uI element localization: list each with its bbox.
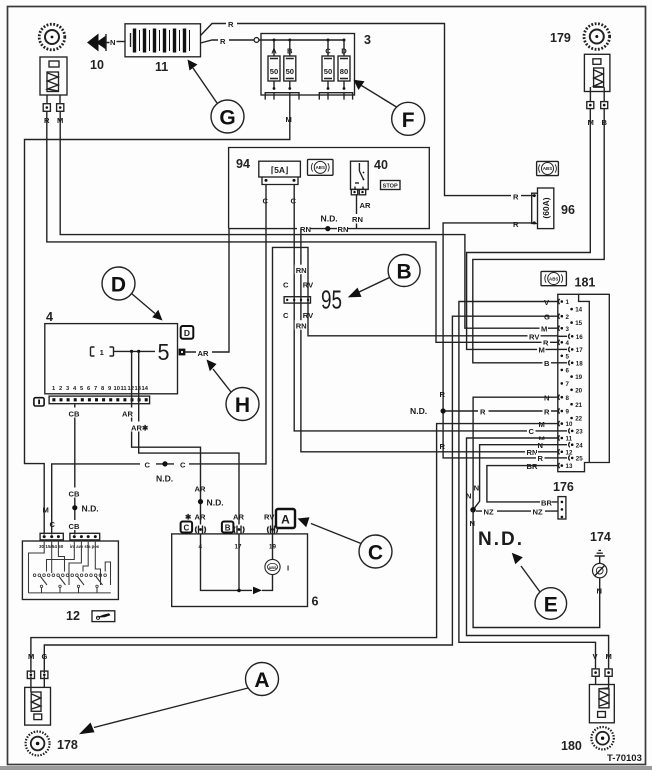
terminal M (178): [27, 671, 34, 678]
circle C annotation: [359, 535, 392, 568]
svg-text:NZ: NZ: [533, 508, 543, 517]
pin 9 of 181: [558, 408, 569, 415]
arrow E: [512, 553, 540, 592]
circle B annotation: [388, 255, 420, 287]
arrow B: [348, 278, 390, 298]
label M (181 row): [537, 433, 546, 443]
pin glyph A (6 pin 19): [268, 526, 278, 534]
fuse C 50: [322, 39, 334, 90]
contact row circles (12): [33, 574, 106, 588]
svg-text:14: 14: [142, 386, 149, 392]
svg-text:RN: RN: [296, 322, 307, 331]
ABS logo box (near 181): [541, 271, 566, 285]
svg-text:N.D.: N.D.: [478, 529, 524, 550]
label AR* (pin13 wire): [130, 422, 149, 433]
svg-text:N.D.: N.D.: [410, 406, 427, 416]
terminal M (top-left sensor): [57, 104, 64, 112]
wire N to battery 11: [117, 41, 126, 43]
svg-text:RV: RV: [529, 333, 540, 342]
svg-text:AR: AR: [233, 513, 244, 522]
pin 25 of 181: [558, 455, 583, 462]
pin 8 of 181: [558, 395, 569, 402]
svg-text:N: N: [470, 519, 475, 528]
svg-text:2: 2: [59, 386, 62, 392]
wire C from 94 left pin to C junction and switch 12: [52, 185, 266, 535]
pin 17 of 181: [558, 347, 583, 354]
wire NZ junction to 176: [476, 510, 558, 512]
svg-text:AR: AR: [360, 201, 371, 210]
connector 176: [558, 497, 566, 519]
pin 15 of 181: [570, 320, 582, 327]
svg-text:17: 17: [576, 347, 583, 354]
svg-text:7: 7: [566, 381, 570, 388]
pin 2 of 181: [558, 314, 569, 321]
abs actuator box 6: [172, 534, 308, 607]
svg-text:M: M: [539, 420, 545, 429]
svg-text:22: 22: [575, 416, 582, 423]
label R (181 row): [536, 453, 545, 463]
svg-text:5: 5: [566, 353, 570, 360]
arrow H: [207, 360, 232, 393]
wire RN through connector 95 to pin12 of 181: [301, 297, 558, 452]
ignition switch 12: [22, 541, 118, 600]
sensor connector (top-left): [40, 57, 67, 104]
label AR (pin12 wire): [121, 408, 134, 419]
tone wheel 180: [591, 727, 613, 749]
svg-text:19: 19: [575, 374, 582, 381]
svg-text:20: 20: [575, 387, 582, 394]
svg-text:RN: RN: [296, 266, 307, 275]
circle E annotation: [535, 588, 567, 620]
wire R from 96 bottom to ND junction, pin9 and pin25: [441, 223, 558, 458]
label N (181 row): [536, 440, 545, 450]
svg-text:11: 11: [121, 386, 128, 392]
icon B box: [222, 522, 234, 533]
svg-text:96: 96: [561, 203, 575, 217]
connector strip of box 4: [49, 396, 150, 404]
svg-text:E: E: [544, 594, 558, 617]
pin glyph C (6 pin 4): [196, 526, 206, 534]
svg-text:40: 40: [374, 158, 388, 172]
svg-text:ABS: ABS: [549, 276, 558, 281]
svg-text:RV: RV: [264, 513, 275, 522]
pin 18 of 181: [558, 360, 583, 367]
pin 16 of 181: [558, 334, 583, 341]
wire G pin2 to sensor 178: [44, 316, 558, 673]
wire R second run (battery to fusebox 3): [201, 38, 259, 43]
label CB (top): [68, 408, 82, 419]
svg-text:R: R: [220, 37, 226, 46]
fuse 94 (5A): [259, 161, 301, 184]
svg-text:4: 4: [46, 310, 53, 324]
svg-text:2: 2: [566, 314, 570, 321]
svg-text:1: 1: [566, 299, 570, 306]
pin 19 of 181: [570, 374, 582, 381]
svg-text:R: R: [513, 220, 519, 229]
label CB (bottom): [68, 520, 82, 531]
wire R from top-left sensor to pin4 of 181: [47, 111, 558, 342]
svg-text:15: 15: [575, 320, 582, 327]
pin 5 of 181: [561, 353, 570, 360]
svg-text:A: A: [271, 47, 277, 56]
svg-text:14: 14: [575, 307, 582, 314]
svg-text:10: 10: [90, 58, 104, 72]
svg-text:ABS: ABS: [316, 165, 325, 170]
icon A box: [276, 509, 295, 528]
svg-text:C: C: [529, 427, 535, 436]
svg-text:C: C: [145, 460, 151, 469]
wire RV from pin19 of 6 over to connector 95 and pin16 of 181: [273, 247, 558, 534]
label M (181 row): [537, 345, 546, 355]
svg-text:RV: RV: [303, 311, 314, 320]
svg-text:ABS: ABS: [543, 166, 552, 171]
wire AR from box 4 pin 12 to pin C of 6: [132, 351, 203, 524]
svg-text:F: F: [402, 109, 415, 132]
icon C box: [181, 522, 193, 533]
tone wheel 178: [26, 732, 50, 756]
pin 23 of 181: [558, 428, 583, 435]
svg-text:174: 174: [590, 530, 611, 544]
svg-text:AR: AR: [198, 349, 209, 358]
svg-text:50: 50: [286, 67, 294, 76]
svg-text:✱: ✱: [185, 513, 192, 522]
stop switch 40: [351, 161, 369, 189]
svg-text:10: 10: [566, 421, 573, 428]
connector 95: [284, 297, 310, 303]
svg-text:N.D.: N.D.: [321, 214, 338, 224]
ABS pump circle (6): [265, 559, 280, 574]
svg-text:AR: AR: [195, 485, 206, 494]
svg-text:50: 50: [324, 67, 332, 76]
STOP label box: [381, 181, 401, 190]
ecu box 4: [45, 324, 178, 394]
circle F annotation: [392, 102, 425, 135]
svg-text:9: 9: [566, 409, 570, 416]
pin 21 of 181: [570, 402, 582, 409]
wire AR-RN from switch 40 to junction: [301, 195, 357, 297]
sensor connector 180: [589, 676, 614, 723]
label RV (181 row): [528, 331, 541, 341]
arrow C: [298, 517, 362, 543]
svg-text:CB: CB: [69, 522, 80, 531]
svg-text:C: C: [283, 280, 289, 289]
svg-text:4: 4: [566, 340, 570, 347]
svg-text:G: G: [42, 652, 48, 661]
svg-text:BR: BR: [527, 462, 538, 471]
label R (top run): [226, 18, 237, 30]
terminal V (180): [592, 669, 599, 676]
svg-text:N: N: [466, 492, 471, 501]
label BR (181 row): [525, 461, 538, 471]
arrow A: [79, 688, 248, 734]
svg-text:R: R: [513, 193, 519, 202]
terminal G (178): [41, 671, 48, 678]
internals of 6: [201, 534, 273, 594]
pin 22 of 181: [570, 416, 582, 423]
connector bracket under fuses A-B: [265, 93, 299, 100]
svg-text:12: 12: [128, 386, 134, 392]
svg-text:180: 180: [561, 739, 582, 753]
battery 11: [125, 24, 201, 57]
output pin of box 4: [179, 349, 186, 356]
svg-text:N.D.: N.D.: [207, 498, 224, 508]
svg-text:5: 5: [158, 339, 170, 365]
svg-text:H: H: [235, 394, 250, 417]
wire M from top-left sensor to pin3 of 181: [60, 111, 558, 328]
svg-text:RV: RV: [303, 280, 314, 289]
sensor connector 179: [584, 54, 610, 101]
key icon box: [92, 611, 115, 622]
ground symbol 174: [595, 550, 605, 563]
svg-text:N: N: [474, 484, 479, 493]
ABS logo box (near 96): [537, 161, 559, 175]
wire M from fuse B to trunk and switch 12: [25, 100, 290, 535]
svg-text:RN: RN: [338, 225, 349, 234]
wire N junction to 174: [473, 510, 600, 628]
svg-text:D: D: [111, 274, 126, 297]
label AR (40): [358, 200, 371, 210]
svg-text:T-70103: T-70103: [607, 753, 642, 764]
ABS logo box (in 94-40 box): [308, 159, 334, 175]
svg-text:D: D: [184, 328, 190, 338]
svg-text:R: R: [480, 408, 486, 417]
label R (second run): [218, 35, 229, 47]
svg-text:R: R: [544, 407, 550, 416]
wire M 179 to pin17 of 181: [467, 109, 591, 350]
svg-text:12: 12: [66, 609, 80, 623]
label CB (mid): [68, 488, 82, 499]
svg-text:N: N: [544, 394, 549, 403]
svg-text:95: 95: [321, 285, 342, 315]
pin 11 of 181: [558, 435, 572, 442]
svg-text:A: A: [254, 669, 269, 692]
terminal B (179): [601, 102, 608, 109]
wire AR from box 4 pin to box 94-40 corner: [185, 229, 229, 352]
svg-text:B: B: [225, 524, 231, 533]
pin 4 of 181: [558, 340, 569, 347]
svg-text:R: R: [440, 390, 446, 399]
svg-text:(60A): (60A): [541, 197, 551, 218]
svg-text:178: 178: [57, 738, 78, 752]
label B (181 row): [543, 358, 552, 368]
svg-text:179: 179: [550, 31, 571, 45]
wire R top run (battery to fuse 96 top): [201, 24, 535, 196]
svg-text:STOP: STOP: [383, 184, 398, 190]
sensor 174: [593, 563, 607, 577]
svg-text:B: B: [544, 359, 550, 368]
pin 14 of 181: [570, 307, 582, 314]
terminal M (180): [605, 669, 612, 676]
svg-text:G: G: [544, 313, 550, 322]
pins of 40: [351, 189, 365, 194]
circle H annotation: [226, 388, 259, 421]
fuse A 50: [268, 39, 280, 90]
tone wheel (top-left sensor): [39, 24, 65, 50]
svg-text:C: C: [368, 542, 383, 565]
svg-text:M: M: [286, 115, 292, 124]
svg-text:18: 18: [576, 360, 583, 367]
svg-text:B: B: [397, 261, 412, 284]
svg-text:16: 16: [576, 334, 583, 341]
svg-text:N.D.: N.D.: [156, 474, 173, 484]
fuse D 80: [338, 39, 350, 90]
svg-text:RN: RN: [352, 215, 363, 224]
svg-text:23: 23: [576, 429, 583, 436]
switch 12 internals: [29, 540, 111, 593]
tone wheel 179: [584, 24, 610, 50]
N junction dot: [470, 507, 476, 513]
connector bracket under fuses C-D: [319, 93, 352, 100]
svg-text:21: 21: [575, 402, 582, 409]
label N (181 row): [543, 392, 552, 402]
svg-text:CB: CB: [69, 410, 80, 419]
circle A annotation: [246, 663, 279, 696]
svg-text:8: 8: [566, 395, 570, 402]
wire V pin1 to sensor 180: [459, 302, 596, 669]
circle D annotation: [102, 267, 135, 300]
svg-text:24: 24: [576, 442, 583, 449]
pin 12 of 181: [558, 449, 573, 456]
svg-text:N.D.: N.D.: [82, 504, 99, 514]
svg-text:C: C: [50, 520, 56, 529]
svg-text:R: R: [440, 442, 446, 451]
ecu connector 181 housing: [558, 294, 610, 471]
svg-text:N: N: [538, 441, 543, 450]
connector strip left (12): [40, 533, 63, 540]
svg-text:7: 7: [94, 386, 97, 392]
label R on pin9 run: [478, 406, 489, 417]
icon D box: [181, 326, 194, 339]
internal link [1] to 5 in box 4: [91, 347, 156, 357]
relay box 94-40: [229, 148, 430, 229]
svg-text:94: 94: [236, 157, 250, 171]
svg-text:10: 10: [114, 386, 120, 392]
svg-text:C: C: [325, 47, 331, 56]
pin glyph B (6 pin 17): [234, 526, 244, 534]
svg-text:BR: BR: [541, 498, 552, 507]
svg-text:N: N: [597, 587, 602, 596]
svg-text:I: I: [287, 564, 289, 573]
svg-text:A: A: [281, 513, 290, 527]
svg-text:M: M: [28, 652, 34, 661]
pin 7 of 181: [561, 381, 570, 388]
svg-text:17: 17: [235, 544, 242, 551]
terminal M (179): [587, 102, 594, 109]
svg-text:25: 25: [576, 456, 583, 463]
svg-text:3: 3: [566, 326, 570, 333]
pin 10 of 181: [558, 421, 573, 428]
arrow F: [354, 80, 397, 107]
svg-text:AR✱: AR✱: [131, 424, 149, 433]
fuse B 50: [284, 39, 296, 90]
pin 24 of 181: [558, 442, 583, 449]
component 10 (sensor pickup symbol): [87, 34, 110, 52]
svg-text:6: 6: [312, 595, 319, 609]
svg-text:C: C: [184, 524, 190, 533]
connector strip right (12): [70, 533, 100, 540]
arrow G: [188, 60, 218, 104]
svg-text:50: 50: [270, 67, 278, 76]
svg-text:AR: AR: [195, 513, 206, 522]
wire AR* from box 4 pin 13 to pin B of 6: [139, 351, 239, 524]
svg-text:CB: CB: [69, 490, 80, 499]
label V (181 row): [543, 297, 552, 307]
svg-text:RN: RN: [527, 448, 538, 457]
wire B 179 to pin18 of 181: [473, 109, 604, 363]
svg-text:176: 176: [553, 480, 574, 494]
svg-text:AR: AR: [122, 410, 133, 419]
svg-text:181: 181: [575, 276, 596, 290]
svg-text:M: M: [606, 652, 612, 661]
icon 1 box (strip): [34, 398, 44, 406]
svg-text:13: 13: [566, 463, 573, 470]
label C (181 row): [527, 426, 536, 436]
fuse 96 (60A): [532, 188, 554, 229]
svg-text:NZ: NZ: [484, 508, 494, 517]
svg-text:11: 11: [155, 60, 168, 74]
arrow D: [132, 294, 163, 321]
svg-text:C: C: [283, 311, 289, 320]
pin 6 of 181: [561, 368, 570, 375]
svg-text:RN: RN: [300, 225, 311, 234]
wire N pin24 to junction: [473, 445, 558, 510]
wire N pin8 to junction: [473, 397, 558, 510]
pin numbers of box 4: [52, 386, 149, 392]
label R (181 row): [543, 406, 552, 416]
svg-text:M: M: [541, 325, 547, 334]
pin 13 of 181: [558, 463, 573, 470]
svg-text:M: M: [43, 506, 49, 515]
svg-text:R: R: [538, 454, 544, 463]
svg-text:D: D: [341, 47, 347, 56]
pin 3 of 181: [558, 326, 569, 333]
svg-text:ABS: ABS: [268, 566, 276, 570]
wire M pin10 to sensor 178: [31, 424, 558, 673]
wire CB from box 4 pin 4 to switch 12: [72, 404, 77, 535]
wire BR pin13 to 176: [487, 466, 558, 502]
label RN (above 95): [295, 265, 307, 276]
label M (181 row): [537, 419, 546, 429]
label RN (40): [351, 214, 364, 224]
label M (181 row): [540, 323, 549, 333]
svg-text:6: 6: [566, 368, 570, 375]
pin 1 of 181: [558, 299, 569, 306]
svg-text:N: N: [110, 38, 115, 47]
label R (181 row): [542, 337, 551, 347]
svg-text:11: 11: [566, 436, 573, 443]
circle G annotation: [211, 100, 244, 133]
svg-text:⌈5A⌋: ⌈5A⌋: [271, 165, 289, 175]
svg-text:B: B: [287, 47, 293, 56]
label R (96 bottom): [511, 218, 521, 229]
svg-text:C: C: [180, 460, 186, 469]
label RN (181 row): [525, 447, 538, 457]
pin 20 of 181: [570, 387, 582, 394]
label R (96 top): [511, 191, 521, 202]
label G (181 row): [543, 311, 552, 321]
sensor connector 178: [25, 676, 51, 725]
svg-text:80: 80: [340, 67, 348, 76]
svg-text:R: R: [228, 20, 234, 29]
svg-text:M: M: [539, 346, 545, 355]
label RN (below 95): [295, 320, 307, 331]
svg-text:G: G: [219, 107, 235, 130]
terminal R (top-left sensor): [43, 104, 50, 112]
svg-text:3: 3: [364, 33, 371, 47]
fusebox 3: [259, 34, 355, 96]
wire M pin11 to sensor 180: [467, 438, 609, 669]
wire C from 94 right pin through connector 95 to pin23 of 181: [294, 185, 558, 431]
